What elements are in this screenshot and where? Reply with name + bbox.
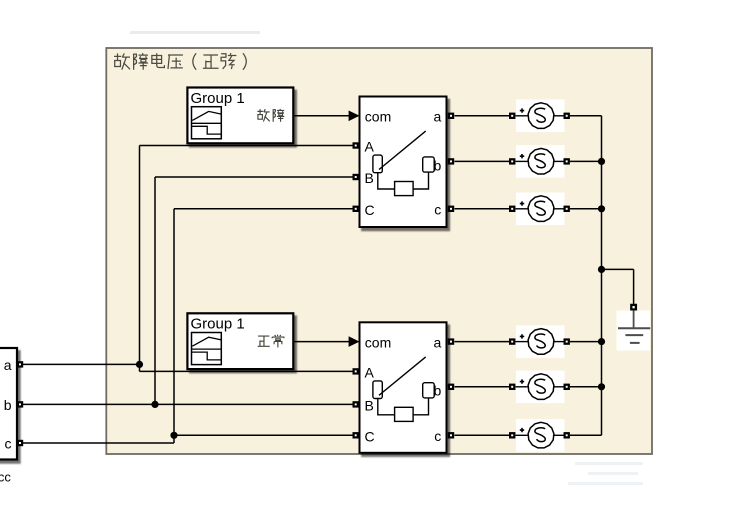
wire phase a horizontal	[23, 363, 140, 365]
svg-text:Group 1: Group 1	[191, 316, 245, 333]
three-phase fault switch SW2 lever	[379, 357, 426, 395]
wire phase c horizontal	[23, 442, 174, 444]
svg-text:c: c	[434, 202, 441, 218]
wire switch to AC source V4	[455, 341, 510, 343]
AC voltage source V6	[510, 419, 569, 452]
wire bus to ground	[602, 268, 634, 270]
svg-text:B: B	[365, 170, 374, 186]
wire Group1(故障) to switch1 com	[293, 115, 351, 117]
svg-text:Group 1: Group 1	[191, 90, 245, 107]
port b of source block	[18, 402, 22, 406]
annotation box 故障电压（正弦）	[106, 48, 652, 454]
wire switch to AC source V3	[455, 208, 510, 210]
wire AC source V1 to bus	[570, 115, 602, 117]
svg-text:c: c	[5, 436, 12, 452]
wire switch to AC source V5	[455, 386, 510, 388]
three-phase fault switch SW1 port a	[449, 114, 453, 118]
wire phase b up to switch1 B	[154, 177, 156, 404]
three-phase fault switch SW2	[360, 322, 447, 453]
three-phase fault switch SW1 port c	[449, 207, 453, 211]
junction node phase c	[170, 432, 177, 439]
port a of source block	[18, 362, 22, 366]
svg-text:a: a	[434, 334, 442, 350]
svg-text:a: a	[4, 357, 12, 373]
svg-text:a: a	[434, 109, 442, 125]
arrowhead at switch2 com	[349, 336, 360, 347]
AC voltage source V1	[510, 100, 569, 133]
AC voltage source V4	[510, 325, 569, 358]
three-phase fault switch SW2 port A	[354, 369, 358, 373]
junction bus node V4	[598, 338, 605, 345]
wire phase c up to junction	[173, 435, 175, 443]
AC voltage source V3	[510, 193, 569, 226]
three-phase fault switch SW2 port a	[449, 340, 453, 344]
three-phase source block (cut off at left edge)	[0, 348, 17, 460]
wire phase b horizontal	[23, 403, 353, 405]
wire AC source V4 to bus	[570, 341, 602, 343]
svg-text:com: com	[365, 334, 391, 350]
three-phase fault switch SW2 contact rectangles	[373, 381, 382, 399]
junction bus node V2	[598, 158, 605, 165]
ground port	[631, 305, 636, 310]
three-phase fault switch SW2 port B	[354, 402, 358, 406]
svg-text:B: B	[365, 398, 374, 414]
port c of source block	[18, 441, 22, 445]
svg-text:cc: cc	[0, 469, 11, 484]
three-phase fault switch SW1 internal resistor	[378, 172, 429, 189]
wire phase a down to switch2 A	[139, 364, 141, 371]
wire AC source V5 to bus	[570, 386, 602, 388]
svg-text:C: C	[365, 429, 375, 445]
wire switch to AC source V1	[455, 115, 510, 117]
junction bus node ground	[598, 266, 605, 273]
svg-text:A: A	[365, 365, 375, 381]
three-phase fault switch SW2 port c	[449, 433, 453, 437]
junction node phase a	[136, 361, 143, 368]
AC voltage source V5	[510, 371, 569, 404]
svg-text:C: C	[365, 202, 375, 218]
wire phase c up to switch1 C	[173, 209, 175, 435]
svg-text:b: b	[4, 397, 12, 413]
wire phase a up to switch1 A	[139, 146, 141, 365]
wire switch to AC source V6	[455, 434, 510, 436]
ground symbol G1	[617, 310, 651, 350]
junction bus node V3	[598, 205, 605, 212]
three-phase fault switch SW1 port C	[354, 207, 358, 211]
wire AC source V3 to bus	[570, 208, 602, 210]
three-phase fault switch SW1 lever	[379, 131, 426, 169]
arrowhead at switch1 com	[349, 111, 360, 122]
AC voltage source V2	[510, 145, 569, 178]
signal builder block Group 1 (故障)	[187, 88, 293, 144]
three-phase fault switch SW1 port A	[354, 143, 358, 147]
svg-text:com: com	[365, 109, 391, 125]
junction bus node V5	[598, 383, 605, 390]
svg-text:c: c	[434, 428, 441, 444]
wire Group1(正常) to switch2 com	[293, 341, 351, 343]
three-phase fault switch SW2 port C	[354, 433, 358, 437]
svg-text:A: A	[365, 139, 375, 155]
signal builder block Group 1 (正常)	[187, 313, 293, 369]
wire phase c to switch2 C	[174, 434, 353, 436]
title text 故障电压（正弦）	[114, 53, 246, 70]
three-phase fault switch SW1 port B	[354, 175, 358, 179]
three-phase fault switch SW2 internal resistor	[378, 398, 429, 415]
wire switch to AC source V2	[455, 160, 510, 162]
three-phase fault switch SW1 port b	[449, 159, 453, 163]
three-phase fault switch SW1 contact rectangles	[373, 155, 382, 173]
junction node phase b	[151, 401, 158, 408]
wire AC source V2 to bus	[570, 160, 602, 162]
three-phase fault switch SW1	[360, 97, 447, 228]
wire AC source V6 to bus	[570, 434, 602, 436]
neutral bus vertical wire	[601, 116, 603, 436]
three-phase fault switch SW2 port b	[449, 385, 453, 389]
